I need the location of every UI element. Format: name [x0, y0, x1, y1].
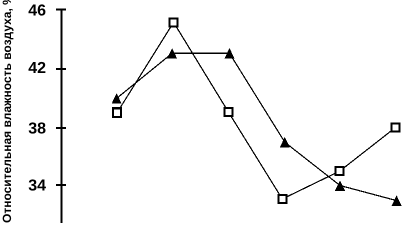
- square marker 1: [112, 107, 122, 118]
- tick 42: [56, 68, 66, 70]
- square marker 5: [335, 166, 345, 176]
- triangle marker 2: [167, 48, 177, 59]
- triangle marker 6: [392, 195, 402, 206]
- triangle marker 5: [335, 180, 345, 191]
- svg-text:Относительная влажность воздух: Относительная влажность воздуха, %: [0, 0, 14, 223]
- tick 34: [56, 184, 66, 186]
- svg-text:42: 42: [28, 60, 46, 77]
- y-axis line: [61, 9, 63, 223]
- triangle marker 3: [225, 48, 235, 59]
- square marker 4: [277, 194, 287, 204]
- svg-text:34: 34: [28, 178, 46, 195]
- square marker 3: [223, 107, 233, 117]
- tick 38: [56, 127, 66, 129]
- square marker 2: [169, 17, 179, 27]
- triangle marker 4: [280, 137, 290, 148]
- square series line: [117, 22, 395, 199]
- svg-text:46: 46: [28, 3, 46, 20]
- tick 46: [56, 9, 66, 11]
- triangle series line: [117, 53, 397, 200]
- triangle marker 1: [112, 93, 122, 104]
- square marker 6: [391, 123, 401, 133]
- svg-text:38: 38: [28, 121, 46, 138]
